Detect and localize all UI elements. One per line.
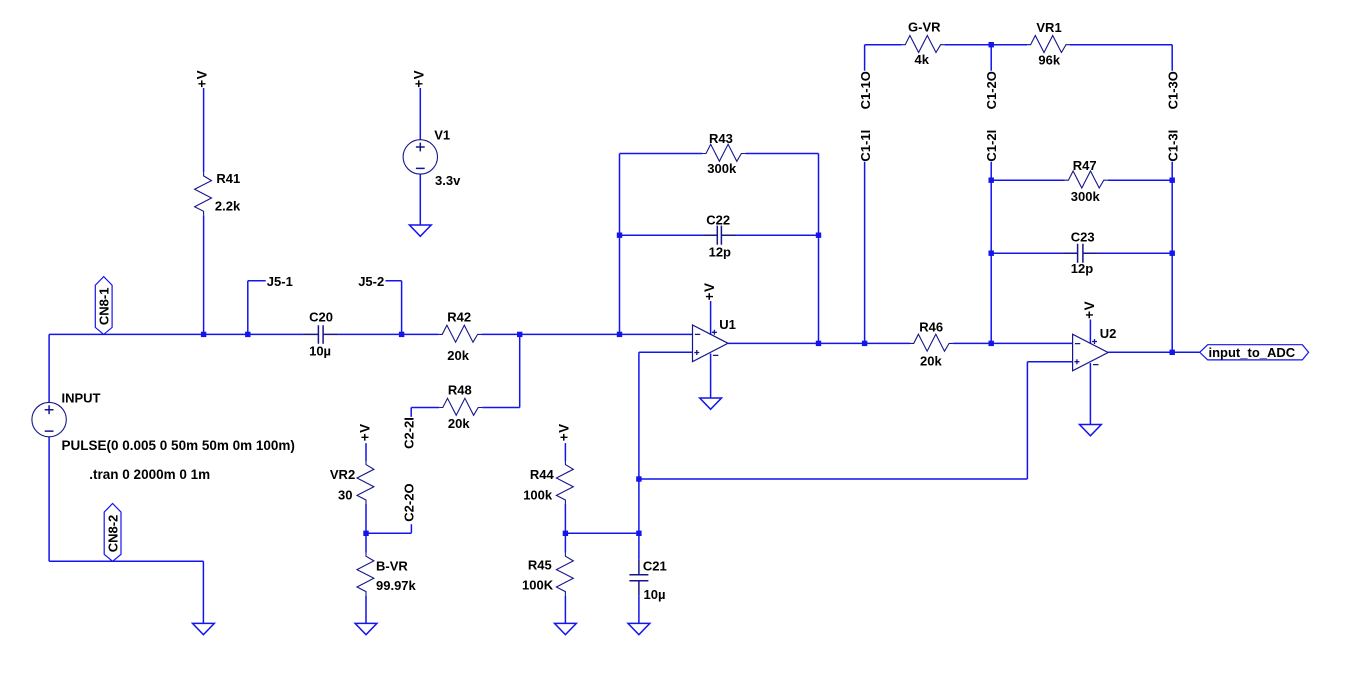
svg-text:U2: U2 xyxy=(1100,326,1117,341)
svg-text:C22: C22 xyxy=(706,212,730,227)
svg-text:PULSE(0 0.005 0 50m 50m 0m 100: PULSE(0 0.005 0 50m 50m 0m 100m) xyxy=(62,438,295,453)
svg-text:C2-2I: C2-2I xyxy=(402,417,417,449)
svg-text:12p: 12p xyxy=(709,244,731,259)
svg-text:3.3v: 3.3v xyxy=(435,173,461,188)
svg-text:input_to_ADC: input_to_ADC xyxy=(1209,345,1296,360)
svg-text:B-VR: B-VR xyxy=(376,559,408,574)
svg-text:100K: 100K xyxy=(522,577,554,592)
svg-text:+V: +V xyxy=(1082,301,1097,319)
svg-text:V1: V1 xyxy=(434,128,450,143)
svg-text:C2-2O: C2-2O xyxy=(402,483,417,521)
svg-text:2.2k: 2.2k xyxy=(215,198,241,213)
svg-text:99.97k: 99.97k xyxy=(376,578,417,593)
svg-text:20k: 20k xyxy=(448,416,470,431)
svg-text:U1: U1 xyxy=(719,317,736,332)
svg-text:300k: 300k xyxy=(707,161,737,176)
svg-text:C21: C21 xyxy=(643,559,667,574)
svg-text:C1-3I: C1-3I xyxy=(1165,130,1180,162)
svg-text:R42: R42 xyxy=(447,309,471,324)
svg-text:C1-2O: C1-2O xyxy=(984,71,999,109)
svg-text:10µ: 10µ xyxy=(644,587,666,602)
svg-text:20k: 20k xyxy=(920,353,942,368)
svg-text:CN8-2: CN8-2 xyxy=(106,515,121,553)
svg-text:CN8-1: CN8-1 xyxy=(97,288,112,326)
svg-text:R48: R48 xyxy=(448,382,472,397)
svg-text:INPUT: INPUT xyxy=(62,391,101,406)
svg-text:VR2: VR2 xyxy=(330,467,355,482)
svg-text:R45: R45 xyxy=(528,557,552,572)
svg-text:C23: C23 xyxy=(1071,229,1095,244)
svg-text:.tran 0 2000m 0 1m: .tran 0 2000m 0 1m xyxy=(89,467,210,482)
svg-text:12p: 12p xyxy=(1071,261,1093,276)
svg-text:300k: 300k xyxy=(1071,189,1101,204)
svg-text:R46: R46 xyxy=(919,320,943,335)
svg-text:30: 30 xyxy=(338,487,352,502)
svg-text:100k: 100k xyxy=(523,487,553,502)
svg-text:R43: R43 xyxy=(709,131,733,146)
svg-text:10µ: 10µ xyxy=(309,344,331,359)
svg-text:+V: +V xyxy=(195,70,210,88)
svg-text:+V: +V xyxy=(557,423,572,441)
svg-text:R44: R44 xyxy=(530,467,555,482)
svg-text:G-VR: G-VR xyxy=(908,20,941,35)
svg-text:C1-1I: C1-1I xyxy=(858,130,873,162)
svg-text:J5-2: J5-2 xyxy=(358,274,384,289)
svg-text:R47: R47 xyxy=(1073,158,1097,173)
svg-text:+V: +V xyxy=(702,282,717,300)
svg-text:C1-3O: C1-3O xyxy=(1165,71,1180,109)
svg-text:96k: 96k xyxy=(1038,53,1060,68)
svg-text:20k: 20k xyxy=(447,348,469,363)
svg-text:C1-2I: C1-2I xyxy=(984,130,999,162)
svg-text:+V: +V xyxy=(411,70,426,88)
svg-text:VR1: VR1 xyxy=(1036,20,1061,35)
svg-text:J5-1: J5-1 xyxy=(267,274,293,289)
svg-text:R41: R41 xyxy=(216,171,240,186)
svg-text:C20: C20 xyxy=(309,309,333,324)
svg-text:+V: +V xyxy=(357,423,372,441)
svg-text:C1-1O: C1-1O xyxy=(858,71,873,109)
svg-text:4k: 4k xyxy=(915,52,930,67)
